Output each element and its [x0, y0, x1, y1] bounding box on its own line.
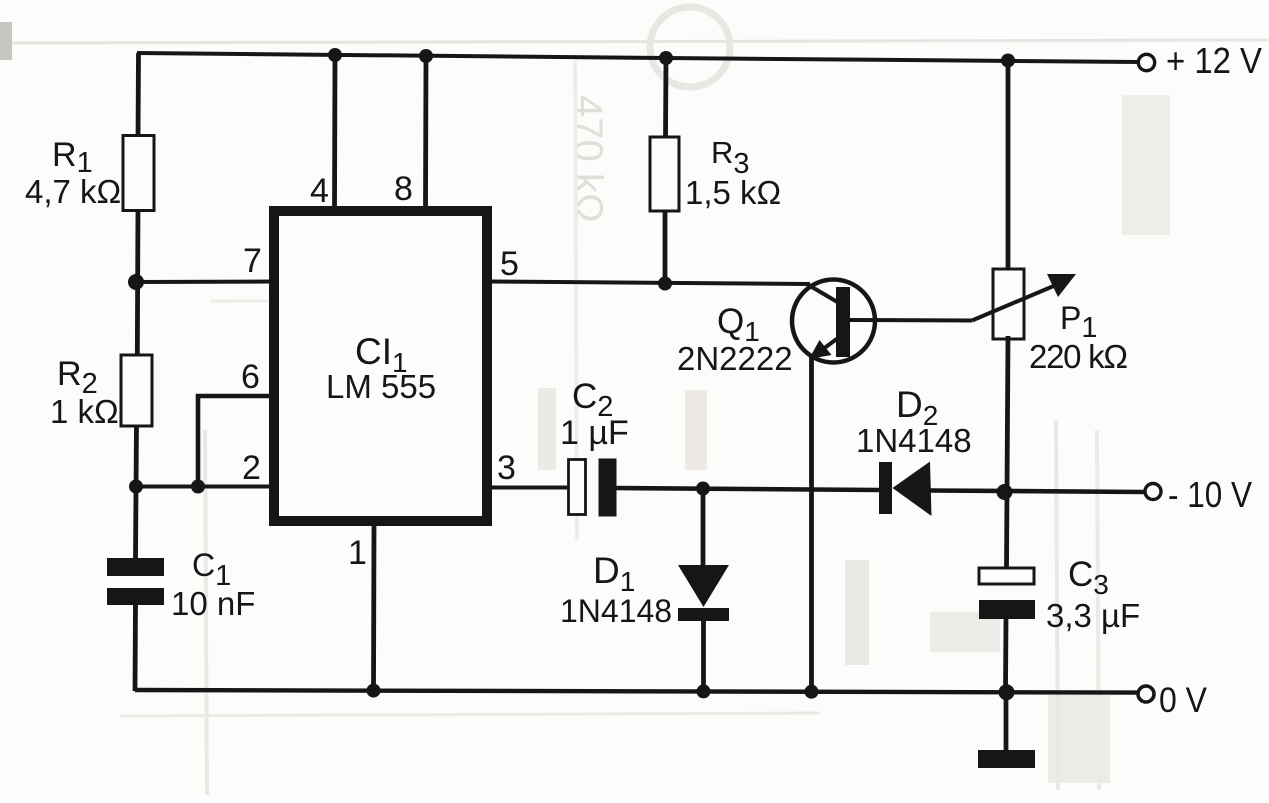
wire ground stub	[1004, 692, 1009, 752]
svg-text:3,3 µF: 3,3 µF	[1046, 597, 1140, 634]
node junction pin6/pin2	[191, 480, 205, 494]
svg-text:1 µF: 1 µF	[560, 414, 629, 452]
capacitor C1 top plate	[107, 558, 164, 576]
svg-text:2: 2	[242, 449, 261, 487]
diode D1 anode wire	[701, 489, 706, 568]
wire pin4	[332, 55, 337, 212]
node 0V rail D1	[697, 684, 711, 698]
transistor Q1 circle	[792, 280, 875, 363]
diode D1 cathode wire	[701, 621, 706, 691]
terminal +12V circle	[1138, 54, 1154, 70]
capacitor C3 top plate (white)	[979, 568, 1034, 584]
svg-text:5: 5	[500, 245, 519, 283]
wire P1 bottom through -10V row to C3	[1007, 336, 1009, 569]
node top rail R3	[659, 51, 673, 65]
IC CI1 LM 555 body	[274, 211, 487, 521]
wire pin7	[136, 280, 275, 285]
svg-text:6: 6	[241, 358, 260, 396]
resistor R1	[123, 136, 154, 211]
wire -10V row from C2 to D2	[615, 488, 879, 490]
node D1 junction	[696, 482, 710, 496]
node -10V row P1/C3	[997, 484, 1013, 500]
wire pin5 row to Q1 base	[490, 282, 810, 285]
capacitor C2 right plate (black)	[599, 459, 617, 517]
svg-text:470 kΩ: 470 kΩ	[566, 95, 610, 223]
potentiometer P1 body	[993, 269, 1024, 339]
svg-text:+ 12 V: + 12 V	[1166, 40, 1262, 81]
terminal -10V circle	[1145, 484, 1161, 500]
diode D2 triangle	[893, 462, 932, 517]
terminal 0V circle	[1138, 686, 1154, 702]
wire Q1 emitter to 0V rail	[809, 357, 814, 691]
svg-text:LM 555: LM 555	[326, 368, 436, 405]
transistor Q1 base bar	[836, 287, 850, 357]
wire pin1 to 0V rail	[371, 524, 376, 691]
svg-text:1 kΩ: 1 kΩ	[50, 393, 119, 430]
wire R1 bottom to node pin7 row	[135, 203, 140, 360]
transistor Q1 emitter diagonal	[811, 338, 838, 358]
wire R3 top	[663, 58, 668, 140]
wire C3 bottom to 0V rail	[1003, 618, 1008, 691]
wire pin6 bend	[198, 396, 275, 487]
svg-text:1N4148: 1N4148	[560, 593, 672, 629]
resistor R3	[650, 137, 679, 211]
transistor Q1 base lead diagonal	[806, 284, 839, 304]
node 0V rail pin1	[367, 684, 381, 698]
svg-text:3: 3	[497, 449, 516, 487]
diode D1 triangle	[678, 565, 729, 607]
svg-text:4,7 kΩ: 4,7 kΩ	[25, 173, 121, 210]
wire C1 bottom to 0V rail	[133, 602, 138, 691]
svg-text:0 V: 0 V	[1159, 681, 1208, 720]
wire P1 top	[1006, 61, 1011, 273]
transistor Q1 collector lead to P1 wiper	[850, 318, 972, 323]
svg-text:1,5 kΩ: 1,5 kΩ	[685, 174, 781, 211]
node 0V rail C3	[999, 684, 1015, 700]
wire left rail top segment (to R1)	[136, 53, 141, 140]
node junction left rail pin2	[129, 480, 143, 494]
capacitor C2 left plate (white)	[569, 460, 586, 515]
svg-text:8: 8	[394, 170, 413, 208]
resistor R2	[121, 355, 152, 426]
svg-text:2N2222: 2N2222	[677, 340, 793, 377]
diode D1 cathode bar	[678, 608, 729, 621]
wire 0V bottom rail	[135, 690, 1138, 693]
svg-text:- 10 V: - 10 V	[1168, 474, 1252, 515]
potentiometer P1 wiper arrow	[1047, 274, 1076, 297]
wire D2 to -10V terminal	[930, 491, 1145, 493]
node pin5/R3 junction	[658, 277, 672, 291]
wire R3 bottom to pin5 row	[663, 208, 668, 282]
svg-text:1N4148: 1N4148	[856, 422, 972, 459]
node top rail pin4	[328, 48, 342, 62]
wire +12V top rail	[137, 53, 1138, 62]
svg-text:4: 4	[310, 172, 329, 210]
wire pin2	[136, 485, 275, 489]
node 0V rail Q1 emitter	[805, 685, 819, 699]
ground bar	[978, 750, 1035, 768]
wire R2 bottom to C1	[136, 422, 137, 558]
svg-text:220 kΩ: 220 kΩ	[1029, 338, 1128, 375]
wire pin3 to C2	[490, 486, 570, 490]
transistor Q1 emitter arrow	[809, 340, 832, 359]
wire pin8	[423, 56, 428, 212]
node top rail P1	[1001, 54, 1015, 68]
diode D2 cathode bar	[879, 462, 892, 514]
node junction R1/R2/pin7	[128, 274, 144, 290]
potentiometer P1 wiper diagonal	[972, 285, 1056, 321]
node top rail pin8	[419, 49, 433, 63]
svg-text:7: 7	[243, 242, 262, 280]
svg-text:1: 1	[348, 534, 367, 572]
capacitor C3 bottom plate (black)	[979, 600, 1035, 619]
capacitor C1 bottom plate	[107, 588, 164, 605]
svg-text:10 nF: 10 nF	[171, 585, 255, 622]
